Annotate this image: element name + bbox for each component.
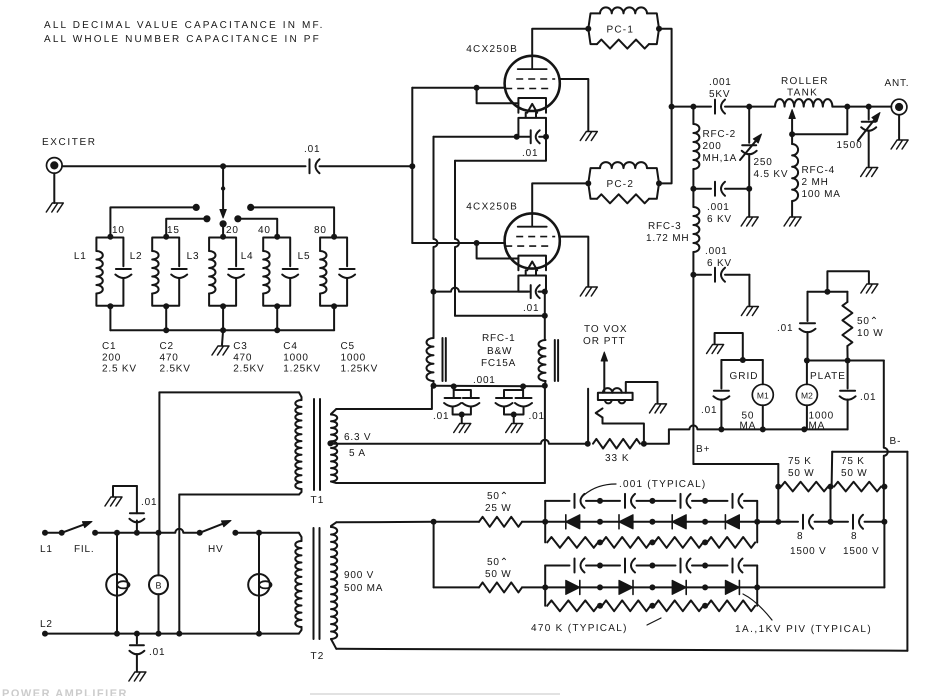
label tube V1 [466, 44, 518, 55]
label C2 value [160, 341, 191, 375]
tube V2 plate [518, 213, 547, 226]
wire row2 output [757, 586, 884, 588]
switch contact 15m [203, 215, 210, 222]
label C1 value [102, 341, 137, 375]
junction rect col mid [649, 584, 655, 590]
junction RFC1 bottom right [542, 383, 548, 389]
svg-text:50⌃: 50⌃ [487, 491, 509, 502]
inductor RFC-1 right winding [539, 340, 546, 381]
tube V1 cathode [518, 98, 546, 113]
svg-text:ROLLER: ROLLER [781, 76, 829, 87]
capacitor equalizing .001 #4 [733, 494, 743, 508]
wire tank4 frame [263, 238, 290, 306]
junction plate line tap [669, 104, 675, 110]
label 6.3V [344, 432, 371, 459]
junction bypass pair bottom [459, 412, 465, 418]
label HV [208, 544, 224, 555]
svg-text:.001: .001 [705, 246, 728, 257]
junction rect col bottom [702, 539, 708, 545]
tube V2 envelope [505, 213, 560, 268]
junction ant branch [866, 104, 872, 110]
capacitor filament bypass .01 a [444, 398, 461, 407]
junction T1 center tap [327, 440, 333, 446]
connector J1 EXCITER [47, 158, 63, 174]
svg-text:C5: C5 [341, 341, 355, 352]
junction rect col top [597, 498, 603, 504]
wire tank bus ground stem [222, 330, 223, 345]
wire T2 sec top lead [336, 521, 433, 524]
wire tank5 frame [320, 238, 347, 306]
svg-text:HV: HV [208, 544, 224, 555]
wire row1 input [434, 521, 479, 523]
capacitor C7 .001 5KV [715, 100, 725, 114]
switch contact 80m [247, 204, 254, 211]
label R2 50 10W [857, 316, 884, 339]
junction V1 bypass right [543, 134, 549, 140]
label .001 TYPICAL [619, 479, 706, 490]
junction grid box feed [740, 357, 746, 363]
tube V1 control grid [505, 88, 552, 90]
junction C9 right [746, 186, 752, 192]
svg-text:75 K: 75 K [788, 456, 812, 467]
wire V1 screen to ground [560, 79, 589, 131]
label B+ [696, 444, 711, 455]
label C6 .01 [304, 144, 320, 155]
svg-text:50⌃: 50⌃ [487, 557, 509, 568]
label .001 feedthrough [473, 375, 496, 386]
svg-text:.01: .01 [433, 411, 449, 422]
label C14 .01 [701, 405, 717, 416]
ground C8 [861, 168, 878, 177]
label ROLLER TANK [781, 76, 829, 99]
label M2 1000 MA [809, 411, 834, 432]
relay contact [588, 389, 602, 444]
svg-text:6 KV: 6 KV [707, 258, 732, 269]
capacitor C9 .001 6KV [693, 182, 749, 196]
wire plate line left [672, 106, 711, 108]
tube V1 screen grid [516, 78, 555, 80]
wire contact15 to tank2 [166, 219, 207, 237]
wire L2 line [45, 633, 299, 635]
svg-text:RFC-2: RFC-2 [703, 129, 736, 140]
label L1 [40, 544, 53, 555]
junction plate bypass [824, 289, 830, 295]
label C18 8 1500V [843, 531, 880, 557]
label C10 250 4.5KV [754, 157, 789, 180]
wire roller to ant [832, 106, 891, 108]
junction V1 bypass left [514, 134, 520, 140]
svg-text:MA: MA [809, 421, 826, 432]
tube V2 control grid [505, 245, 552, 247]
ground tank bus [212, 346, 229, 355]
wire rect caps rail [545, 565, 757, 567]
switch HV arm [197, 521, 231, 536]
capacitor equalizing .001 #1 [575, 559, 585, 573]
ground grid meter [707, 345, 724, 354]
junction rect row output [754, 584, 760, 590]
junction V2 grid node [474, 240, 480, 246]
inductor L2 [152, 251, 158, 294]
wire B- vert to row2 [883, 522, 885, 588]
diode rectifier R #2 [619, 580, 633, 594]
junction bypass pair2 feed [520, 383, 526, 389]
wire V1 plate to PC-1 [532, 29, 588, 56]
label PLATE [810, 371, 846, 382]
svg-text:.01: .01 [523, 303, 539, 314]
junction HV lamp [256, 530, 262, 536]
junction M1 rail [760, 426, 766, 432]
wire T1 sec bottom lead [336, 482, 545, 484]
svg-text:470 K (TYPICAL): 470 K (TYPICAL) [531, 623, 628, 634]
wire cathode return vertical [455, 161, 459, 316]
junction L2 T1 return [176, 631, 182, 637]
svg-text:200: 200 [703, 141, 722, 152]
junction rect col top [702, 498, 708, 504]
svg-text:L1: L1 [74, 251, 87, 262]
svg-text:.001: .001 [473, 375, 496, 386]
tube V1 base [518, 113, 546, 137]
inductor PC-1 coil [600, 7, 647, 13]
junction bypass pair bottom [511, 412, 517, 418]
wire rect diode rail [545, 521, 757, 523]
label C17 8 1500V [790, 531, 827, 557]
wire B+ feed [693, 463, 778, 465]
svg-text:20: 20 [226, 225, 239, 236]
wire C11 to ground [748, 275, 750, 306]
capacitor C12 .01 line bypass [113, 486, 144, 533]
wire relay coil to ground [626, 382, 658, 403]
wire tank4 bottom stem [276, 306, 278, 331]
svg-text:C1: C1 [102, 341, 116, 352]
junction 75K left [775, 484, 781, 490]
wire plate meter box top [807, 360, 848, 362]
svg-text:L2: L2 [40, 619, 53, 630]
core T1 [314, 399, 320, 490]
svg-text:2.5 KV: 2.5 KV [102, 364, 137, 375]
label C4 value [283, 341, 321, 375]
wire B+ drop to filter [777, 464, 779, 522]
node tank4 bottom [274, 303, 280, 309]
svg-text:40: 40 [258, 225, 271, 236]
svg-text:1.25KV: 1.25KV [283, 364, 321, 375]
capacitor C16 .01 plate bypass [800, 292, 816, 361]
label C12 .01 [141, 497, 157, 508]
svg-text:ALL DECIMAL VALUE CAPACITANCE: ALL DECIMAL VALUE CAPACITANCE IN MF. [44, 20, 325, 31]
wire roller tap [792, 107, 847, 135]
svg-text:50 W: 50 W [485, 569, 512, 580]
ground plate bypass [861, 284, 878, 293]
ground exciter [46, 203, 63, 212]
label L4 [241, 251, 254, 262]
diode rectifier L #4 [725, 515, 739, 529]
wire row2 input seg [522, 586, 545, 588]
wire V1 cathode right drop [455, 137, 546, 161]
lamp I2 HV pilot [248, 533, 271, 634]
svg-text:50 W: 50 W [788, 468, 815, 479]
junction RFC1 right top [542, 313, 548, 319]
svg-text:8: 8 [797, 531, 803, 542]
label C13 .01 [149, 647, 165, 658]
wire 75K mid drop [830, 487, 832, 522]
svg-text:.001 (TYPICAL): .001 (TYPICAL) [619, 479, 706, 490]
meter M1 grid [752, 360, 773, 429]
capacitor C18 8uF 1500V [853, 515, 863, 529]
svg-text:10: 10 [112, 225, 125, 236]
junction fil lamp1 [114, 530, 120, 536]
capacitor C1 [115, 269, 131, 278]
resistor R2 50ohm 10W [842, 292, 852, 361]
label T1 [311, 495, 325, 506]
tube V2 screen grid [516, 236, 555, 238]
core RFC-1 left [443, 338, 446, 381]
junction L2 lamp1 [114, 631, 120, 637]
diode rectifier L #2 [619, 515, 633, 529]
ground C13 [129, 672, 146, 681]
switch S1 contact 20m [220, 220, 227, 227]
resistor R3 75K 50W [781, 482, 828, 492]
wire RFC-4 to ground [791, 201, 793, 217]
svg-text:T2: T2 [311, 651, 325, 662]
junction rect col top [649, 563, 655, 569]
wire T1 primary return [178, 495, 180, 634]
svg-text:50⌃: 50⌃ [857, 316, 879, 327]
junction PC-1 right [656, 26, 662, 32]
wire tank2 bottom stem [165, 306, 167, 331]
label C3 value [233, 341, 264, 375]
label RFC-2 [703, 129, 738, 164]
ground C11 [741, 307, 758, 316]
capacitor C3 [228, 269, 244, 278]
label band 20 [226, 225, 239, 236]
svg-text:B: B [155, 581, 161, 591]
tube V1 envelope [505, 56, 560, 111]
node tank2 bottom [163, 303, 169, 309]
svg-text:1.72 MH: 1.72 MH [646, 233, 689, 244]
capacitor C5 [339, 269, 355, 278]
junction grid meter rail [718, 426, 724, 432]
capacitor filament bypass .01 b [462, 398, 479, 407]
capacitor C13 .01 line bypass [129, 634, 144, 672]
label L3 [187, 251, 200, 262]
svg-text:POWER AMPLIFIER: POWER AMPLIFIER [2, 688, 128, 696]
wire vertical cathode V1 bus [434, 137, 438, 292]
svg-text:.01: .01 [141, 497, 157, 508]
label M1 50 MA [740, 411, 757, 432]
wire plate bypass rail [808, 291, 848, 293]
capacitor equalizing .001 #1 [575, 494, 585, 508]
svg-text:50 W: 50 W [841, 468, 868, 479]
svg-text:33 K: 33 K [605, 453, 630, 464]
svg-text:1000: 1000 [283, 353, 308, 364]
wire rect row left edge [544, 501, 546, 543]
tube V2 cathode [518, 256, 546, 271]
junction 75K right [881, 484, 887, 490]
junction rect col mid [649, 519, 655, 525]
junction tank bus t2 [163, 327, 169, 333]
wire C6 to grid bus [320, 165, 413, 167]
junction 33K left [585, 441, 591, 447]
junction tank bus t3 [220, 327, 226, 333]
label 1A 1KV PIV TYPICAL [735, 624, 872, 635]
svg-text:2 MH: 2 MH [802, 177, 829, 188]
ground ANT [891, 140, 908, 149]
wire cathode return to RFC1 right [455, 315, 545, 317]
wire filter caps rail [757, 521, 884, 523]
svg-text:L4: L4 [241, 251, 254, 262]
node L2 terminal [42, 631, 48, 637]
inductor roller tank [775, 99, 832, 107]
connector J2 ANT [891, 99, 907, 115]
wire tank5 bottom stem [333, 306, 335, 331]
svg-text:.01: .01 [304, 144, 320, 155]
wire L1 to switch [45, 532, 62, 534]
svg-text:.001: .001 [709, 77, 732, 88]
svg-text:5KV: 5KV [709, 89, 730, 100]
svg-text:OR PTT: OR PTT [583, 336, 626, 347]
node tank4 top [274, 234, 280, 240]
label R5 50 25W [485, 491, 512, 514]
ground V1 screen [580, 132, 597, 141]
capacitor equalizing .001 #3 [681, 494, 691, 508]
wire RFC1 right winding lead [544, 316, 546, 340]
label R4 75K 50W [841, 456, 868, 479]
junction rect row input [542, 519, 548, 525]
label C15 .01 [860, 392, 876, 403]
inductor L3 [209, 251, 215, 294]
svg-text:GRID: GRID [730, 371, 759, 382]
leader .001 typical [584, 484, 616, 495]
svg-text:900 V: 900 V [344, 570, 374, 581]
wire B- horizontal [832, 451, 907, 453]
junction rect col bottom [649, 539, 655, 545]
svg-text:PC-2: PC-2 [607, 179, 635, 190]
diode rectifier R #4 [725, 580, 739, 594]
label 900V 500MA [344, 570, 383, 594]
wire V2 bypass right drop [544, 292, 546, 316]
svg-text:ALL WHOLE NUMBER CAPACITANCE I: ALL WHOLE NUMBER CAPACITANCE IN PF [44, 34, 321, 45]
resistor R6 50ohm 50W [479, 582, 522, 592]
svg-text:80: 80 [314, 225, 327, 236]
svg-text:2.5KV: 2.5KV [160, 364, 191, 375]
label L1 [74, 251, 87, 262]
junction 33K right [641, 441, 647, 447]
wire grid feed V2 [412, 242, 505, 244]
inductor RFC-3 [693, 189, 699, 275]
capacitor filament bypass .01 b [515, 398, 532, 407]
svg-text:M2: M2 [801, 391, 813, 401]
junction rect col mid [597, 519, 603, 525]
wire HV line [235, 532, 299, 534]
junction PC-1 left [585, 26, 591, 32]
junction grid bus [409, 163, 415, 169]
svg-text:FC15A: FC15A [481, 358, 516, 369]
svg-text:1500 V: 1500 V [843, 546, 880, 557]
svg-text:100 MA: 100 MA [802, 189, 841, 200]
wire relay contact to bias [603, 418, 644, 444]
inductor RFC-2 [693, 107, 699, 189]
svg-text:T1: T1 [311, 495, 325, 506]
svg-text:L1: L1 [40, 544, 53, 555]
svg-text:.01: .01 [522, 148, 538, 159]
capacitor C15 .01 plate [840, 361, 856, 430]
svg-text:470: 470 [160, 353, 179, 364]
svg-text:4CX250B: 4CX250B [466, 44, 518, 55]
diode rectifier R #1 [566, 580, 580, 594]
ground C10 [741, 217, 758, 226]
label PC-1 [607, 24, 635, 35]
ground RFC-4 [784, 217, 801, 226]
junction PC-2 left [585, 180, 591, 186]
junction rect row output [754, 519, 760, 525]
junction rect col top [597, 563, 603, 569]
junction rect col mid [702, 584, 708, 590]
capacitor C4 [282, 269, 298, 278]
ground relay coil [650, 404, 667, 413]
wire tank common bus [110, 329, 334, 331]
junction fil T1 [156, 530, 162, 536]
label C5 value [341, 341, 379, 375]
leader 470K typical [647, 618, 661, 625]
wire V2 grid to cathode box [477, 243, 519, 259]
wire rect row right edge [756, 566, 758, 606]
svg-text:.001: .001 [707, 202, 730, 213]
node L1 terminal [42, 530, 48, 536]
wire T1 sec top lead [336, 388, 432, 409]
capacitor equalizing .001 #2 [625, 559, 635, 573]
label T2 [311, 651, 325, 662]
svg-text:25 W: 25 W [485, 503, 512, 514]
wire B- midpoint riser [831, 452, 834, 487]
wire V1 grid to cathode box [477, 88, 519, 103]
wire T1 primary feed riser [158, 392, 160, 532]
wire row1 output [757, 521, 778, 523]
junction fil capC12 [134, 530, 140, 536]
svg-text:TO VOX: TO VOX [584, 324, 628, 335]
svg-text:B+: B+ [696, 444, 711, 455]
ground filament bypass [506, 424, 523, 433]
junction plate box right [845, 358, 851, 364]
wire bypass pair ground stem [461, 415, 463, 424]
diode rectifier L #3 [672, 515, 686, 529]
label ANT [885, 78, 910, 89]
relay actuation arrow [601, 352, 607, 393]
wire bias to meter rail [644, 429, 669, 443]
note: capacitance units text [44, 20, 325, 45]
wire tank2 frame [152, 238, 179, 306]
label TO VOX OR PTT [583, 324, 628, 347]
label C9 .001 6KV [707, 202, 732, 225]
inductor L5 [320, 251, 326, 294]
junction exciter-switch [220, 163, 226, 169]
label B- [890, 436, 902, 447]
svg-text:1000: 1000 [341, 353, 366, 364]
svg-text:M1: M1 [757, 391, 769, 401]
wire contact40 to tank4 [238, 219, 277, 237]
svg-text:FIL.: FIL. [74, 544, 94, 555]
inductor RFC-4 [792, 134, 798, 201]
node tank3 bottom [220, 303, 226, 309]
junction RFC2 top [690, 104, 696, 110]
inductor L1 [96, 251, 102, 294]
label V2 bypass .01 [523, 303, 539, 314]
wire grid bus vertical [411, 88, 413, 243]
svg-text:500 MA: 500 MA [344, 583, 383, 594]
junction V1 grid node [474, 85, 480, 91]
wire T1 primary top lead [159, 391, 299, 393]
wire wiper contact to tank3 [222, 224, 224, 237]
wire B- right drop [906, 452, 908, 651]
label band 15 [167, 225, 180, 236]
